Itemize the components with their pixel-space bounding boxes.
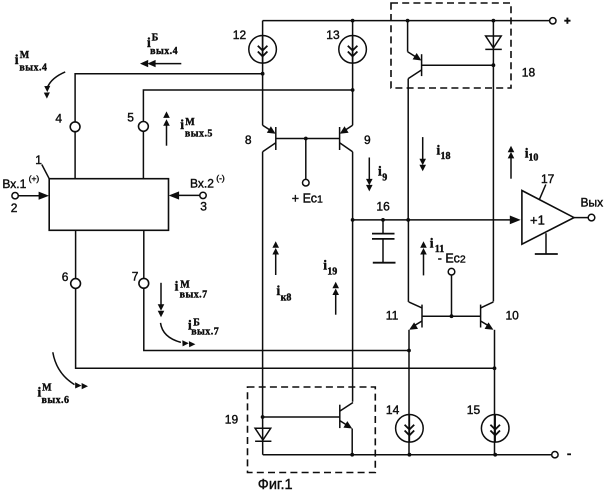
label i_19 bbox=[323, 257, 337, 277]
wire op-amp output bbox=[574, 217, 588, 219]
svg-text:i: i bbox=[175, 279, 179, 294]
svg-text:18: 18 bbox=[441, 151, 451, 162]
label i_vyh4_M bbox=[15, 50, 48, 74]
node 4 bbox=[70, 122, 80, 132]
wire transistor 10 emitter down through current source 15 to bottom rail bbox=[494, 330, 496, 455]
junction node-4 wire / cs12 line bbox=[261, 72, 265, 76]
current arrow i_18 (down) bbox=[419, 137, 426, 171]
wire node 4 up and right to current source 12 line bbox=[75, 74, 263, 122]
svg-text:вых.4: вых.4 bbox=[19, 63, 47, 74]
label i_vyh5_M bbox=[180, 117, 213, 139]
label + supply bbox=[564, 18, 570, 24]
wire Ec2 to base bbox=[451, 275, 453, 316]
wire t18 collector down to node 16 wire bbox=[407, 79, 409, 220]
current arrow i_vyh5_M (up) bbox=[163, 111, 170, 145]
svg-text:Вых: Вых bbox=[581, 195, 604, 209]
current arrow i_19 (up) bbox=[332, 282, 339, 315]
wire node 5 down to block 1 bbox=[142, 131, 144, 178]
svg-text:i: i bbox=[430, 235, 434, 250]
current arrow i_vyh7_B (curved) bbox=[161, 323, 196, 347]
dashed box 18 bbox=[391, 3, 511, 88]
node 5 bbox=[139, 122, 149, 132]
node 6 bbox=[71, 279, 81, 289]
current arrow i_vyh4_B (double left arrow) bbox=[140, 60, 181, 67]
junction base wire / Ec2 lead bbox=[450, 314, 454, 318]
current source 15 bbox=[481, 415, 509, 443]
block 1 rectangle bbox=[49, 179, 168, 231]
junction bottom rail / current source 15 bbox=[493, 453, 497, 457]
wire common base of transistors 8 and 9 bbox=[276, 138, 340, 140]
wire input 2 with arrow into block bbox=[18, 195, 40, 197]
svg-text:9: 9 bbox=[382, 173, 387, 184]
current arrow i_10 (up) bbox=[508, 146, 515, 179]
wire emitter of transistor 19 to bottom rail bbox=[351, 429, 353, 455]
junction top rail / current source 13 bbox=[351, 19, 355, 23]
label i_vyh6_M bbox=[38, 383, 70, 406]
wire node 16 to op-amp input bbox=[353, 219, 510, 221]
svg-text:1: 1 bbox=[35, 153, 42, 167]
current arrow i_vyh7_M (down) bbox=[158, 283, 165, 317]
current arrow i_vyh4_M (curved) bbox=[44, 72, 65, 99]
svg-text:9: 9 bbox=[364, 133, 371, 147]
wire transistor 11 emitter down through current source 14 to bottom rail bbox=[408, 330, 410, 455]
wire t18 base to diode 18 bbox=[422, 64, 494, 66]
svg-text:i: i bbox=[180, 117, 184, 132]
svg-text:11: 11 bbox=[386, 309, 399, 323]
current arrow i_11 (up) bbox=[420, 241, 427, 275]
terminal 3 bbox=[200, 192, 206, 198]
junction top rail / transistor 18 emitter bbox=[406, 19, 410, 23]
svg-text:15: 15 bbox=[467, 403, 481, 417]
current source 12 bbox=[249, 36, 277, 64]
transistor in box 18 bbox=[408, 21, 422, 79]
wire block 1 down to node 6 bbox=[75, 230, 77, 278]
svg-text:+1: +1 bbox=[530, 213, 545, 228]
current arrow i_vyh6_M (curved) bbox=[53, 352, 88, 389]
junction node-6 wire / t10 emitter line bbox=[493, 366, 497, 370]
svg-text:вых.5: вых.5 bbox=[185, 128, 213, 139]
wire top supply rail bbox=[263, 20, 550, 22]
svg-text:вых.7: вых.7 bbox=[191, 327, 219, 338]
wire transistor 9 collector down to box 19 transistor collector bbox=[352, 152, 354, 402]
wire base of transistor 19 bbox=[263, 416, 340, 418]
svg-text:2: 2 bbox=[11, 201, 18, 215]
current arrow i_9 (down) bbox=[366, 158, 373, 192]
terminal Ec1 bbox=[303, 179, 310, 186]
arrowhead into op-amp input bbox=[510, 216, 521, 225]
transistor 10 bbox=[481, 302, 494, 330]
junction bottom rail / current source 14 bbox=[408, 453, 412, 457]
wire node 4 down to block 1 bbox=[74, 132, 76, 179]
svg-text:12: 12 bbox=[233, 28, 247, 42]
junction t18 base / diode cathode bbox=[492, 63, 496, 67]
svg-text:17: 17 bbox=[541, 172, 555, 186]
svg-text:16: 16 bbox=[376, 200, 390, 214]
wire top rail through current source 12 to transistor 8 emitter bbox=[262, 21, 264, 126]
junction t19 emitter / bottom rail bbox=[350, 453, 354, 457]
wire block 1 down to node 7 bbox=[143, 230, 145, 278]
junction node-7 wire / t11 emitter line bbox=[407, 349, 411, 353]
op-amp 17 triangle bbox=[522, 191, 574, 245]
terminal Ec2 bbox=[448, 268, 455, 275]
label i_10 bbox=[525, 146, 539, 164]
label i_k8 bbox=[277, 283, 292, 303]
svg-text:+ Ес1: + Ес1 bbox=[292, 191, 323, 205]
svg-text:8: 8 bbox=[245, 133, 252, 147]
pointer line from label 1 to block corner bbox=[42, 165, 49, 179]
junction node-5 wire / cs13 line bbox=[351, 88, 355, 92]
current source 14 bbox=[396, 415, 424, 443]
svg-text:18: 18 bbox=[522, 66, 536, 80]
svg-text:М: М bbox=[185, 117, 195, 128]
label i_18 bbox=[437, 142, 451, 162]
pointer line from label 17 to triangle bbox=[539, 185, 546, 200]
wire input 3 with arrow into block bbox=[178, 194, 200, 196]
junction node 16 / capacitor lead bbox=[381, 218, 385, 222]
label i_vyh7_B bbox=[188, 317, 219, 337]
wire node 16 down to transistor 11 collector bbox=[407, 220, 409, 302]
svg-text:Фиг.1: Фиг.1 bbox=[258, 477, 293, 492]
svg-text:4: 4 bbox=[55, 112, 62, 126]
svg-text:М: М bbox=[20, 50, 30, 61]
wire node 6 down and right to transistor 10 emitter line bbox=[76, 288, 495, 368]
wire node 7 down and right to transistor 11 emitter line bbox=[144, 288, 409, 350]
svg-text:М: М bbox=[42, 383, 52, 394]
label i_vyh7_M bbox=[175, 279, 208, 301]
svg-text:вых.6: вых.6 bbox=[42, 395, 70, 406]
wire common base of transistors 11 and 10 bbox=[422, 315, 481, 317]
junction base wire / Ec1 lead bbox=[304, 137, 308, 141]
terminal + top right bbox=[550, 18, 556, 24]
wire base to Ec1 terminal bbox=[305, 139, 307, 180]
terminal output bbox=[588, 214, 595, 221]
dashed box 19 bbox=[248, 387, 376, 473]
transistor 8 bbox=[263, 125, 276, 151]
label i_vyh4_B bbox=[147, 33, 178, 57]
wire top rail through current source 13 to transistor 9 emitter bbox=[352, 21, 354, 126]
label i_9 bbox=[378, 164, 387, 184]
svg-text:14: 14 bbox=[386, 403, 400, 417]
svg-text:10: 10 bbox=[506, 309, 520, 323]
svg-text:5: 5 bbox=[127, 111, 134, 125]
terminal - bottom right bbox=[552, 452, 558, 458]
svg-text:i: i bbox=[15, 52, 19, 67]
wire transistor 8 collector down to node in box 19 bbox=[262, 152, 264, 417]
ground under op-amp bbox=[535, 233, 558, 254]
capacitor 16 bbox=[372, 220, 395, 263]
current arrow i_k8 (up) bbox=[272, 241, 279, 275]
svg-text:Б: Б bbox=[152, 33, 159, 44]
label i_11 bbox=[430, 235, 444, 255]
svg-text:3: 3 bbox=[200, 199, 207, 213]
node 7 bbox=[139, 278, 149, 288]
ground under capacitor bbox=[373, 262, 396, 264]
svg-text:вых.4: вых.4 bbox=[150, 46, 178, 57]
transistor in box 19 bbox=[340, 403, 353, 429]
svg-text:7: 7 bbox=[132, 269, 139, 283]
junction top rail / diode 18 bbox=[492, 19, 496, 23]
wire node 5 up and right to current source 13 line bbox=[143, 90, 352, 122]
transistor 9 bbox=[340, 125, 353, 151]
junction t8 collector / diode 19 / t19 base bbox=[261, 415, 265, 419]
transistor 11 bbox=[409, 302, 422, 330]
svg-text:19: 19 bbox=[225, 413, 239, 427]
current source 13 bbox=[339, 36, 367, 64]
svg-text:19: 19 bbox=[327, 267, 337, 278]
wire diode 18 down to transistor 10 collector bbox=[492, 65, 494, 301]
label - supply bbox=[567, 453, 571, 455]
svg-text:6: 6 bbox=[62, 270, 69, 284]
junction node 16 / transistor 9 collector bbox=[351, 218, 355, 222]
diode in box 18 bbox=[485, 21, 502, 66]
svg-text:11: 11 bbox=[435, 244, 444, 255]
svg-text:вых.7: вых.7 bbox=[180, 290, 208, 301]
diode in box 19 bbox=[255, 417, 271, 455]
terminal 2 bbox=[12, 193, 18, 199]
svg-text:13: 13 bbox=[326, 28, 340, 42]
svg-text:к8: к8 bbox=[281, 292, 292, 303]
junction node 16 / t18 collector line bbox=[406, 218, 410, 222]
wire bottom rail bbox=[263, 454, 552, 456]
svg-text:10: 10 bbox=[528, 153, 538, 164]
